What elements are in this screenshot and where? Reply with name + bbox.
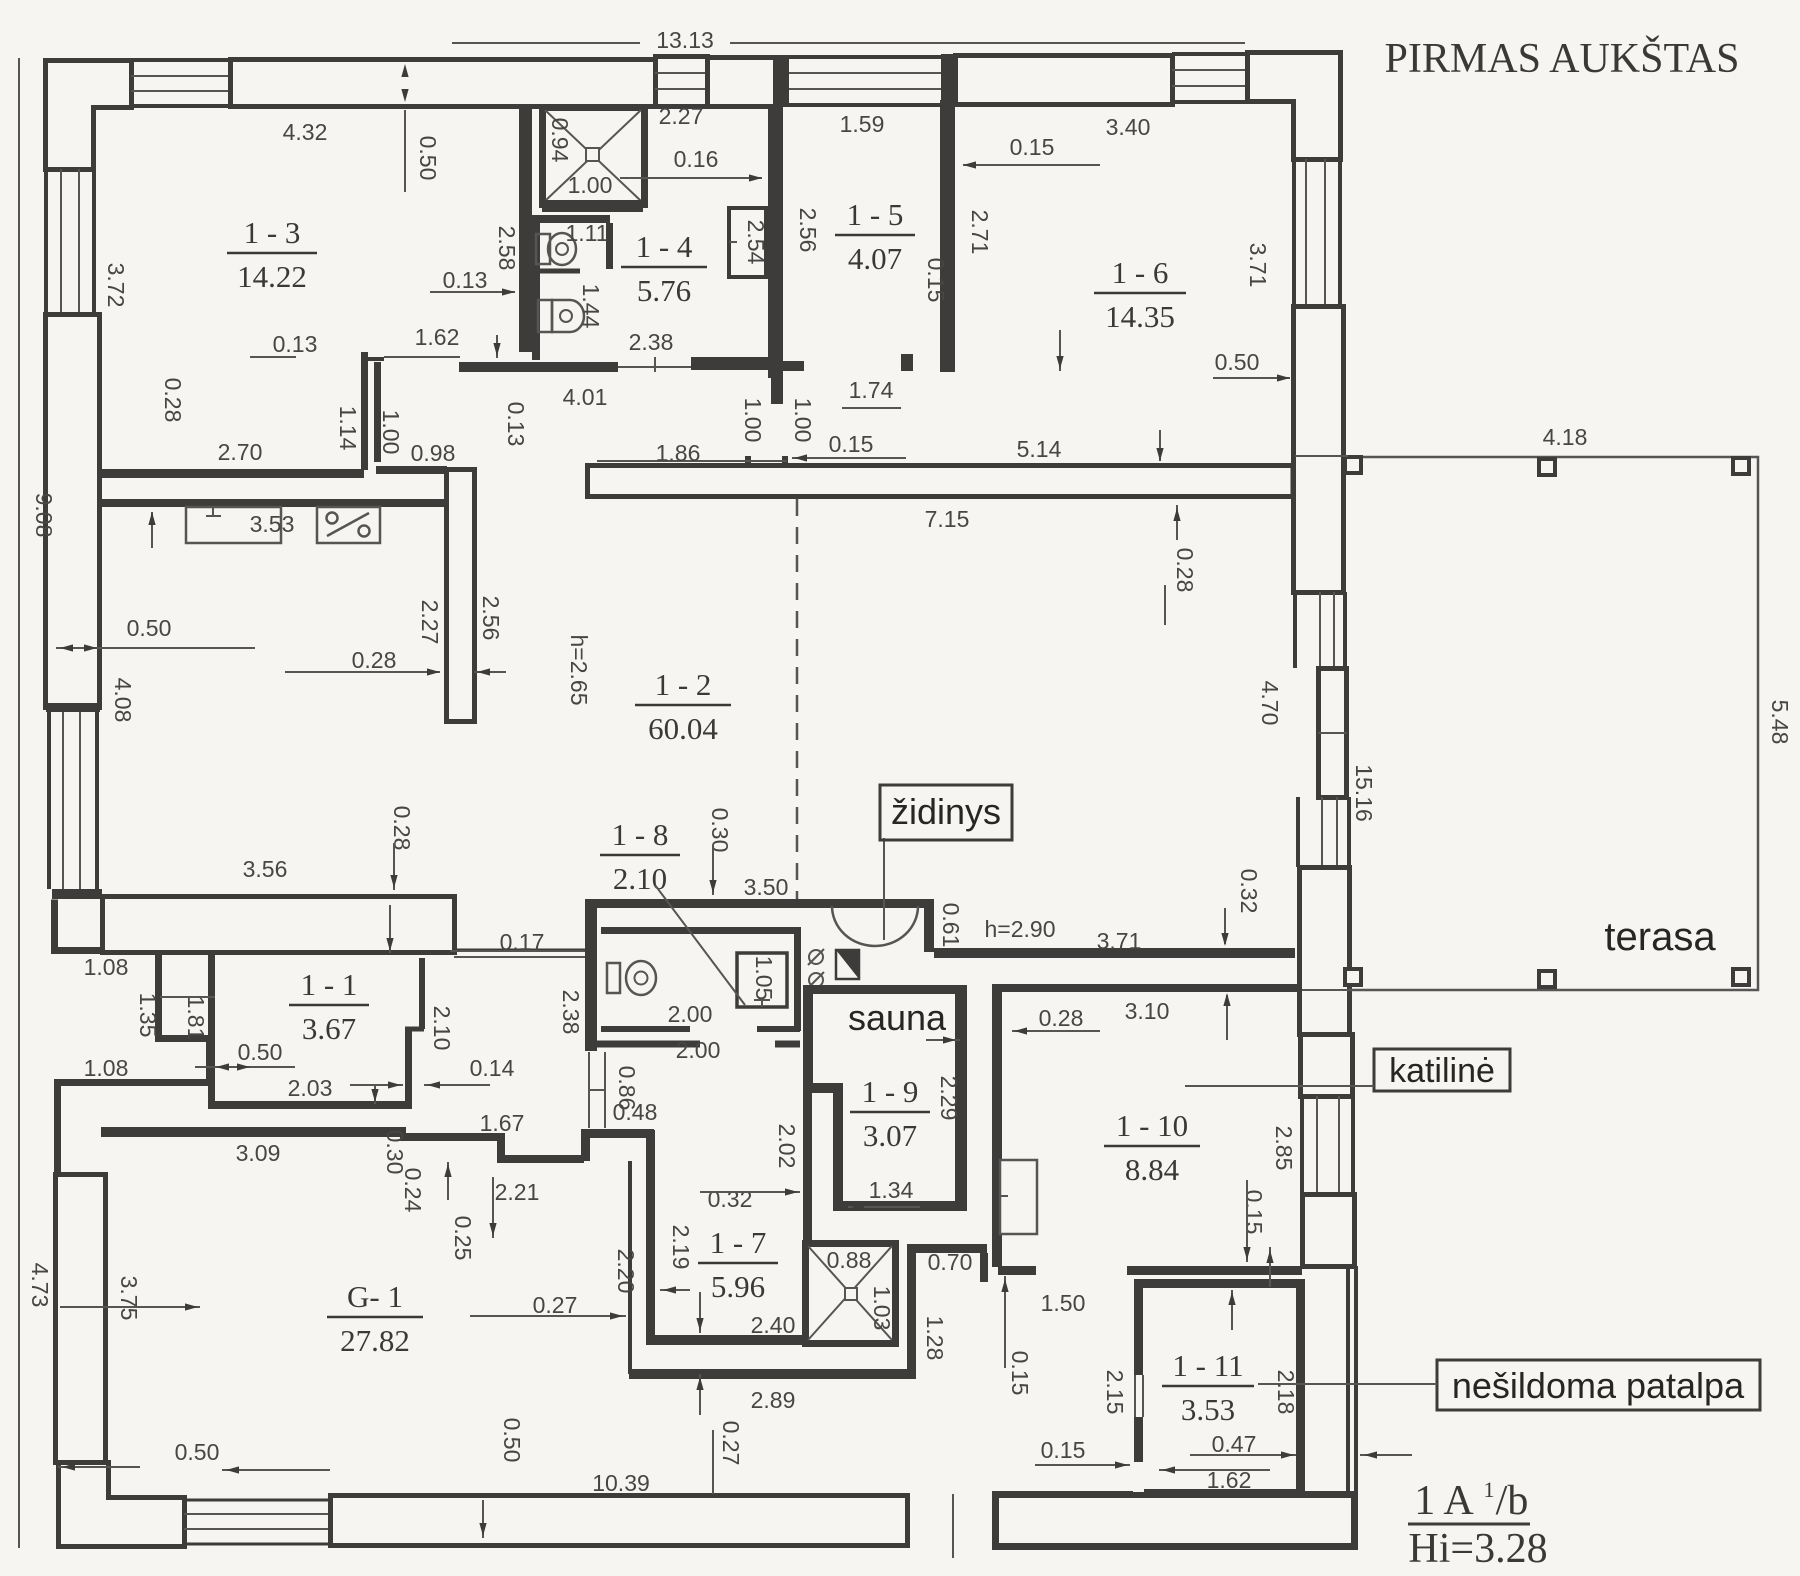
wall: 1-7 south: [653, 1335, 805, 1345]
svg-text:1.67: 1.67: [480, 1110, 525, 1136]
svg-text:1.00: 1.00: [568, 172, 613, 198]
svg-text:0.27: 0.27: [533, 1292, 578, 1318]
2.40 down arrow: [696, 1318, 703, 1331]
wall: 1-3 east (2.58): [519, 107, 532, 352]
svg-text:0.47: 0.47: [1212, 1431, 1257, 1457]
3.10 up arrow: [1223, 993, 1230, 1006]
svg-text:0.50: 0.50: [1215, 349, 1260, 375]
window: above room 1-6: [1172, 52, 1247, 56]
svg-text:2.15: 2.15: [1102, 1370, 1128, 1415]
svg-text:0.28: 0.28: [1172, 548, 1198, 593]
svg-text:1 - 5: 1 - 5: [847, 197, 904, 232]
svg-text:1.44: 1.44: [578, 284, 604, 329]
wall: east pier (0.50 block): [1294, 307, 1344, 593]
5.14 down arrow: [1156, 448, 1163, 461]
terrace edge across wall: [1295, 455, 1348, 457]
svg-text:1.00: 1.00: [378, 410, 404, 455]
svg-text:0.32: 0.32: [708, 1186, 753, 1212]
0.13 arrow: [430, 291, 515, 293]
1.74 underline: [842, 407, 901, 409]
svg-text:0.94: 0.94: [547, 118, 573, 163]
0.50 top tie: [404, 110, 406, 192]
svg-text:1.00: 1.00: [740, 398, 766, 443]
svg-text:3.09: 3.09: [236, 1140, 281, 1166]
svg-text:sauna: sauna: [848, 997, 947, 1038]
svg-text:7.15: 7.15: [925, 506, 970, 532]
svg-text:5.14: 5.14: [1017, 436, 1062, 462]
svg-text:1.74: 1.74: [849, 377, 894, 403]
ventilation symbols: [809, 950, 823, 964]
svg-text:0.28: 0.28: [160, 378, 186, 423]
terrace outline: [1348, 457, 1758, 990]
svg-text:1.35: 1.35: [135, 993, 161, 1038]
svg-text:1.59: 1.59: [840, 111, 885, 137]
0.50 arrow west: [56, 647, 255, 649]
wall: fireplace jog: [924, 908, 934, 952]
wall: east pier at 1-10 bottom: [1303, 1195, 1355, 1267]
svg-text:0.70: 0.70: [928, 1249, 973, 1275]
svg-text:nešildoma patalpa: nešildoma patalpa: [1452, 1365, 1745, 1406]
0.28 porch arrow: [390, 875, 397, 888]
svg-text:1 - 2: 1 - 2: [655, 667, 712, 702]
toilet icon 1-8: [607, 963, 620, 993]
window: east wall upper (3.71): [1292, 159, 1296, 306]
svg-text:2.03: 2.03: [288, 1075, 333, 1101]
chimney block in north wall: [656, 57, 708, 107]
svg-text:3.72: 3.72: [103, 263, 129, 308]
svg-text:2.40: 2.40: [751, 1312, 796, 1338]
svg-text:Hi=3.28: Hi=3.28: [1408, 1526, 1547, 1572]
stove box icon: [317, 507, 380, 543]
svg-text:0.50: 0.50: [238, 1039, 283, 1065]
jamb left of 1-5 window: [775, 55, 789, 107]
2.89 arrow: [696, 1377, 703, 1390]
wall: katiline 1-10 north: [992, 984, 1302, 992]
wall: 1-8 north (3.50): [585, 899, 934, 908]
room 1-11 box: [1139, 1284, 1301, 1494]
svg-text:4.70: 4.70: [1257, 681, 1283, 726]
svg-text:1.81: 1.81: [183, 996, 209, 1041]
wall: center block east riser: [907, 1244, 916, 1378]
wall: bath block south (4.01): [459, 362, 618, 372]
svg-text:2.18: 2.18: [1273, 1370, 1299, 1415]
svg-text:0.86: 0.86: [614, 1066, 640, 1111]
wall: kitchen north (3.53 counter wall): [100, 499, 446, 507]
svg-text:0.50: 0.50: [175, 1439, 220, 1465]
svg-text:5.96: 5.96: [711, 1269, 765, 1304]
svg-text:4.08: 4.08: [110, 678, 136, 723]
stub below 1-4/1-5 wall: [771, 378, 783, 404]
svg-text:9.08: 9.08: [31, 493, 57, 538]
svg-text:2.85: 2.85: [1271, 1126, 1297, 1171]
svg-text:0.28: 0.28: [352, 647, 397, 673]
3.56 arrow: [386, 938, 393, 951]
wall: G-1 north (3.09): [101, 1127, 400, 1137]
svg-text:5.76: 5.76: [637, 273, 691, 308]
svg-text:3.53: 3.53: [1181, 1392, 1235, 1427]
svg-text:1.11: 1.11: [565, 220, 608, 246]
svg-text:14.35: 14.35: [1105, 299, 1175, 334]
dashed room divider 1-2: [796, 499, 799, 899]
svg-text:3.53: 3.53: [250, 511, 295, 537]
shower X box lower: [806, 1244, 896, 1344]
svg-text:2.56: 2.56: [478, 596, 504, 641]
1.35/1.81 tie: [160, 996, 215, 998]
svg-text:1.28: 1.28: [922, 1316, 948, 1361]
wall: east pier below windows: [1300, 868, 1350, 1035]
svg-text:1.08: 1.08: [84, 1055, 129, 1081]
svg-text:0.13: 0.13: [273, 331, 318, 357]
svg-text:1.03: 1.03: [869, 1286, 895, 1331]
svg-text:27.82: 27.82: [340, 1323, 410, 1358]
svg-text:2.00: 2.00: [676, 1037, 721, 1063]
wall: interior band 5.14/7.15: [588, 466, 1294, 497]
svg-text:0.32: 0.32: [1236, 869, 1262, 914]
wall: south band of garage: [331, 1496, 908, 1546]
svg-text:3.50: 3.50: [744, 874, 789, 900]
svg-text:3.67: 3.67: [302, 1011, 356, 1046]
shower room with X: [543, 108, 645, 205]
wall: 1-5 south segments: [691, 357, 768, 370]
svg-text:terasa: terasa: [1604, 915, 1716, 959]
window: north-west (4.32 room): [131, 58, 230, 62]
katiline box: [1374, 1049, 1510, 1091]
svg-text:h=2.65: h=2.65: [566, 635, 592, 706]
wall: west pier (4.08): [46, 315, 100, 708]
boiler in 1-10: [1000, 1160, 1037, 1234]
svg-text:13.13: 13.13: [656, 27, 714, 53]
svg-text:1 - 1: 1 - 1: [301, 967, 358, 1002]
wall: bath block 1-8 outer west: [585, 899, 597, 1051]
svg-text:3.71: 3.71: [1097, 928, 1142, 954]
leader to zidinys: [883, 838, 885, 940]
svg-text:3.10: 3.10: [1125, 998, 1170, 1024]
wall: door jamb inner (1.00): [374, 362, 381, 462]
svg-text:2.54: 2.54: [743, 220, 769, 265]
kitchen counter with sink: [186, 507, 281, 543]
wall: south band of east wing: [996, 1495, 1355, 1547]
wall: bottom-left corner pillar: [59, 1463, 185, 1547]
svg-text:60.04: 60.04: [648, 711, 718, 746]
window: east wall (4.70 lower): [1296, 797, 1300, 867]
0.14 arrow b: [427, 1081, 440, 1088]
svg-text:1.00: 1.00: [790, 398, 816, 443]
0.32 arrow: [785, 1188, 798, 1195]
0.50 door line: [195, 1066, 295, 1068]
0.27 arrow 1-7: [610, 1312, 623, 1319]
svg-text:1.34: 1.34: [869, 1177, 914, 1203]
window sill cap: [52, 889, 102, 899]
0.15 arrow 1-10: [1243, 1247, 1250, 1260]
svg-text:2.00: 2.00: [668, 1001, 713, 1027]
svg-text:0.61: 0.61: [938, 903, 964, 948]
svg-text:8.84: 8.84: [1125, 1152, 1180, 1187]
door jambs on band (1.00/1.00): [745, 456, 751, 467]
0.28 katiline arrow: [1014, 1027, 1027, 1034]
svg-text:1 A: 1 A: [1414, 1478, 1474, 1524]
wall: top-left corner pillar: [46, 61, 132, 170]
svg-text:G- 1: G- 1: [347, 1279, 403, 1314]
0.14 arrow a: [388, 1081, 401, 1088]
window: west (9.08 lower): [47, 711, 51, 889]
svg-text:1.14: 1.14: [335, 406, 361, 451]
svg-text:1 - 3: 1 - 3: [244, 215, 301, 250]
window cap: [46, 703, 100, 712]
leader nesildoma: [1258, 1383, 1437, 1385]
svg-text:0.27: 0.27: [718, 1421, 744, 1466]
svg-text:4.07: 4.07: [848, 241, 902, 276]
svg-text:0.15: 0.15: [923, 258, 949, 303]
svg-text:0.50: 0.50: [415, 136, 441, 181]
svg-text:2.27: 2.27: [659, 103, 704, 129]
sink in 1-8: [737, 953, 787, 1007]
svg-text:0.15: 0.15: [1010, 134, 1055, 160]
svg-text:3.56: 3.56: [243, 856, 288, 882]
0.47 arrow: [1281, 1451, 1294, 1458]
wall: 1-3 door jamb (1.14): [361, 352, 368, 470]
door tick: south entrance: [952, 1494, 954, 1558]
13.13 dim line: [452, 42, 640, 44]
svg-text:2.02: 2.02: [774, 1124, 800, 1169]
svg-text:1.86: 1.86: [656, 440, 701, 466]
wall: 1-7 / sauna divider: [803, 1085, 812, 1243]
svg-text:0.50: 0.50: [499, 1418, 525, 1463]
svg-text:/b: /b: [1496, 1478, 1529, 1524]
wall: east wall beside katiline: [1301, 1035, 1353, 1097]
wall: east mid pier: [1319, 669, 1347, 798]
svg-text:1 - 7: 1 - 7: [710, 1225, 767, 1260]
sauna arrow: [943, 1036, 956, 1043]
svg-text:0.16: 0.16: [674, 146, 719, 172]
toilet icon 1: [536, 234, 550, 264]
west overall dim line: [18, 58, 20, 1548]
wall: between 1-4 and 1-5: [768, 107, 783, 378]
window: east wall (4.70 upper): [1293, 592, 1297, 668]
0.28 arrow kitchen: [285, 671, 440, 673]
leader 1-8: [655, 885, 745, 1005]
sauna 1-9 walls: [803, 985, 813, 1090]
0.50 arrow east: [1213, 377, 1290, 379]
wall: jog to katiline (0.70): [916, 1244, 987, 1253]
svg-text:0.15: 0.15: [1007, 1351, 1033, 1396]
svg-text:0.14: 0.14: [470, 1055, 515, 1081]
svg-text:h=2.90: h=2.90: [985, 916, 1056, 942]
svg-text:2.21: 2.21: [495, 1179, 540, 1205]
svg-text:1 - 6: 1 - 6: [1112, 255, 1169, 290]
svg-text:2.27: 2.27: [417, 600, 443, 645]
svg-text:2.58: 2.58: [494, 226, 520, 271]
0.15 arrow 1-6: [963, 164, 1100, 166]
svg-text:0.15: 0.15: [1041, 1437, 1086, 1463]
wall: east wall of unheated wing: [1346, 1266, 1350, 1547]
svg-text:židinys: židinys: [891, 791, 1001, 832]
svg-text:1.62: 1.62: [415, 324, 460, 350]
svg-text:0.98: 0.98: [411, 440, 456, 466]
window: katiline east: [1300, 1096, 1304, 1194]
svg-text:0.15: 0.15: [829, 431, 874, 457]
svg-text:1 - 11: 1 - 11: [1172, 1348, 1243, 1383]
0.32 arrow line: [1224, 908, 1226, 944]
svg-text:3.40: 3.40: [1106, 114, 1151, 140]
svg-text:1: 1: [1484, 1477, 1495, 1502]
jamb right of 1-5 window: [941, 54, 955, 106]
svg-text:katilinė: katilinė: [1389, 1052, 1495, 1090]
svg-text:14.22: 14.22: [237, 259, 307, 294]
svg-text:2.19: 2.19: [668, 1225, 694, 1270]
0.50 south arrow: [479, 1523, 486, 1536]
svg-text:0.24: 0.24: [400, 1168, 426, 1213]
0.15 arrow 1-11: [1115, 1461, 1128, 1468]
wall: h=2.90 south of living room: [934, 948, 1295, 958]
wall: north band, chimney to 1-5 window: [708, 58, 776, 107]
wall: 1-10 west: [992, 984, 1002, 1267]
svg-text:2.70: 2.70: [218, 439, 263, 465]
svg-text:2.71: 2.71: [967, 210, 993, 255]
0.50 garage arrow: [226, 1466, 239, 1473]
WC niche walls in 1-4: [532, 215, 610, 223]
svg-text:0.28: 0.28: [389, 806, 415, 851]
svg-text:0.50: 0.50: [127, 615, 172, 641]
svg-text:0.13: 0.13: [503, 402, 529, 447]
WC room 1-8: [601, 927, 800, 934]
svg-text:15.16: 15.16: [1351, 764, 1377, 822]
wall: 1-8 south double: [601, 1026, 690, 1032]
fireplace arc (zidinys): [832, 906, 918, 946]
svg-text:4.32: 4.32: [283, 119, 328, 145]
svg-text:5.48: 5.48: [1767, 700, 1793, 745]
kitchen up arrow: [148, 512, 155, 525]
svg-text:PIRMAS AUKŠTAS: PIRMAS AUKŠTAS: [1385, 35, 1740, 82]
svg-text:1 - 9: 1 - 9: [862, 1074, 919, 1109]
svg-text:1.50: 1.50: [1041, 1290, 1086, 1316]
wall: 1-1 south: [208, 1101, 410, 1109]
wall: north band west section: [231, 60, 656, 107]
closet 2.54 on 1-4 east wall: [729, 208, 766, 277]
svg-text:2.29: 2.29: [936, 1076, 962, 1121]
wall: top-right corner pillar: [1248, 53, 1341, 160]
svg-text:2.20: 2.20: [613, 1249, 639, 1294]
0.25 arrow: [489, 1223, 496, 1236]
svg-text:0.15: 0.15: [1241, 1190, 1267, 1235]
wall: 1-1 west: [208, 954, 215, 1107]
nesildoma patalpa box: [1437, 1360, 1760, 1410]
window: west (3.72): [44, 169, 48, 314]
svg-text:1.05: 1.05: [751, 956, 777, 1001]
wall: center block south: [629, 1369, 916, 1379]
garage door (west): [184, 1499, 330, 1502]
svg-text:2.89: 2.89: [751, 1387, 796, 1413]
svg-text:0.88: 0.88: [827, 1247, 872, 1273]
svg-text:4.01: 4.01: [563, 384, 608, 410]
svg-text:4.18: 4.18: [1543, 424, 1588, 450]
svg-text:2.38: 2.38: [629, 329, 674, 355]
wall: shower south ledge: [542, 200, 643, 212]
wall: band north of 1-1: [103, 897, 455, 953]
1-11 up arrow: [1228, 1292, 1235, 1305]
svg-text:4.73: 4.73: [27, 1263, 53, 1308]
0.15 line: [792, 457, 906, 459]
wall: 1-1 east with jog: [405, 1031, 412, 1109]
wall: 1-10 south: [998, 1266, 1036, 1275]
svg-text:0.30: 0.30: [707, 808, 733, 853]
terrace bottom across wall: [1302, 989, 1348, 991]
wall: hall spine (0.98 + 2.56 vertical): [376, 466, 447, 474]
svg-text:0.28: 0.28: [1039, 1005, 1084, 1031]
1.34 arrow: [851, 1203, 864, 1210]
svg-text:2.10: 2.10: [429, 1006, 455, 1051]
svg-text:2.38: 2.38: [558, 990, 584, 1035]
window in 1-11 west wall: [1133, 1375, 1144, 1417]
svg-text:1.08: 1.08: [84, 954, 129, 980]
wall: 1-3 south (2.70): [97, 469, 364, 478]
svg-text:10.39: 10.39: [592, 1470, 650, 1496]
svg-text:3.75: 3.75: [116, 1276, 142, 1321]
toilet icon 2: [538, 300, 552, 332]
wall: north band over 1-6: [956, 56, 1173, 105]
svg-text:0.25: 0.25: [450, 1216, 476, 1261]
svg-text:2.56: 2.56: [795, 208, 821, 253]
window: above room 1-5: [789, 55, 941, 59]
wall: 1-7 west: [628, 1161, 632, 1374]
wall: west porch recess outline: [55, 900, 210, 1175]
svg-text:3.07: 3.07: [863, 1118, 917, 1153]
0.30 arrow: [709, 880, 716, 893]
svg-text:3.71: 3.71: [1245, 243, 1271, 288]
zidinys box: [880, 785, 1012, 840]
svg-text:1 - 4: 1 - 4: [636, 229, 693, 264]
svg-text:1 - 8: 1 - 8: [612, 817, 669, 852]
leader katiline: [1185, 1085, 1374, 1087]
wall: west wall of garage: [56, 1175, 106, 1463]
wall: between 1-5 and 1-6: [940, 100, 955, 372]
svg-text:0.13: 0.13: [443, 267, 488, 293]
svg-text:1 - 10: 1 - 10: [1116, 1108, 1188, 1143]
wall: G-1 north step to 1-7: [581, 1129, 590, 1161]
0.16 arrow: [620, 177, 762, 179]
